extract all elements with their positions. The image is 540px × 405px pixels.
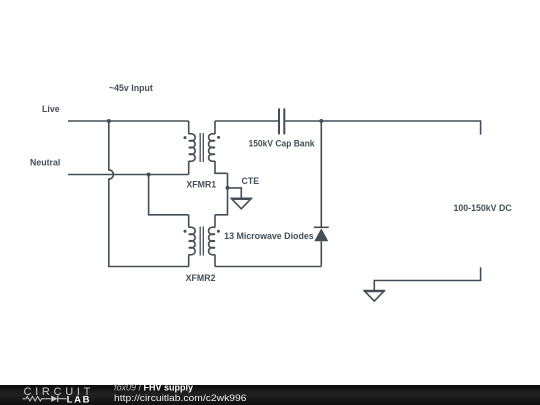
svg-text:XFMR1: XFMR1 [186, 179, 216, 189]
node diode top junction [319, 119, 323, 123]
wire corner down to XFMR2 secondary top [215, 173, 228, 215]
footer logo diode icon [51, 396, 57, 402]
node live junction [107, 119, 111, 123]
capacitor C1 150kV Cap Bank [279, 108, 284, 134]
wire neutral branch to XFMR2 primary top [149, 175, 189, 215]
node neutral junction [147, 173, 151, 177]
transformer XFMR1 [184, 121, 221, 175]
wire neutral [68, 174, 189, 176]
svg-text:Live: Live [42, 104, 60, 114]
svg-text:LAB: LAB [67, 394, 92, 405]
ground CTE [230, 198, 252, 209]
wire XFMR1 secondary top to capacitor [215, 120, 278, 122]
svg-text:http://circuitlab.com/c2wk996: http://circuitlab.com/c2wk996 [114, 393, 247, 404]
svg-text:100-150kV DC: 100-150kV DC [454, 203, 513, 213]
svg-text:~45v Input: ~45v Input [109, 83, 153, 93]
wire live branch to XFMR2 primary bottom (with hop) [109, 121, 189, 267]
wire output bottom stub to ground [374, 267, 480, 290]
wire capacitor to output top stub [285, 121, 480, 135]
ground output [363, 291, 385, 302]
wire diode anode down to bottom wire [320, 241, 322, 266]
wire live [68, 120, 189, 122]
svg-text:CTE: CTE [242, 176, 260, 186]
wire XFMR1 secondary bottom to corner [215, 161, 228, 173]
diode D1 [314, 227, 329, 241]
wire XFMR2 secondary bottom to diode anode [215, 266, 321, 268]
svg-text:13 Microwave Diodes: 13 Microwave Diodes [224, 231, 314, 241]
svg-text:fox09 / FHV supply: fox09 / FHV supply [114, 383, 193, 393]
svg-text:XFMR2: XFMR2 [186, 273, 216, 283]
node CTE junction [226, 186, 230, 190]
svg-text:Neutral: Neutral [30, 157, 60, 167]
svg-text:150kV Cap Bank: 150kV Cap Bank [249, 138, 315, 148]
wire diode cathode up to top wire [320, 121, 322, 227]
transformer XFMR2 [184, 215, 220, 267]
wire CTE node to ground [228, 188, 242, 198]
footer logo resistor icon [23, 396, 51, 401]
